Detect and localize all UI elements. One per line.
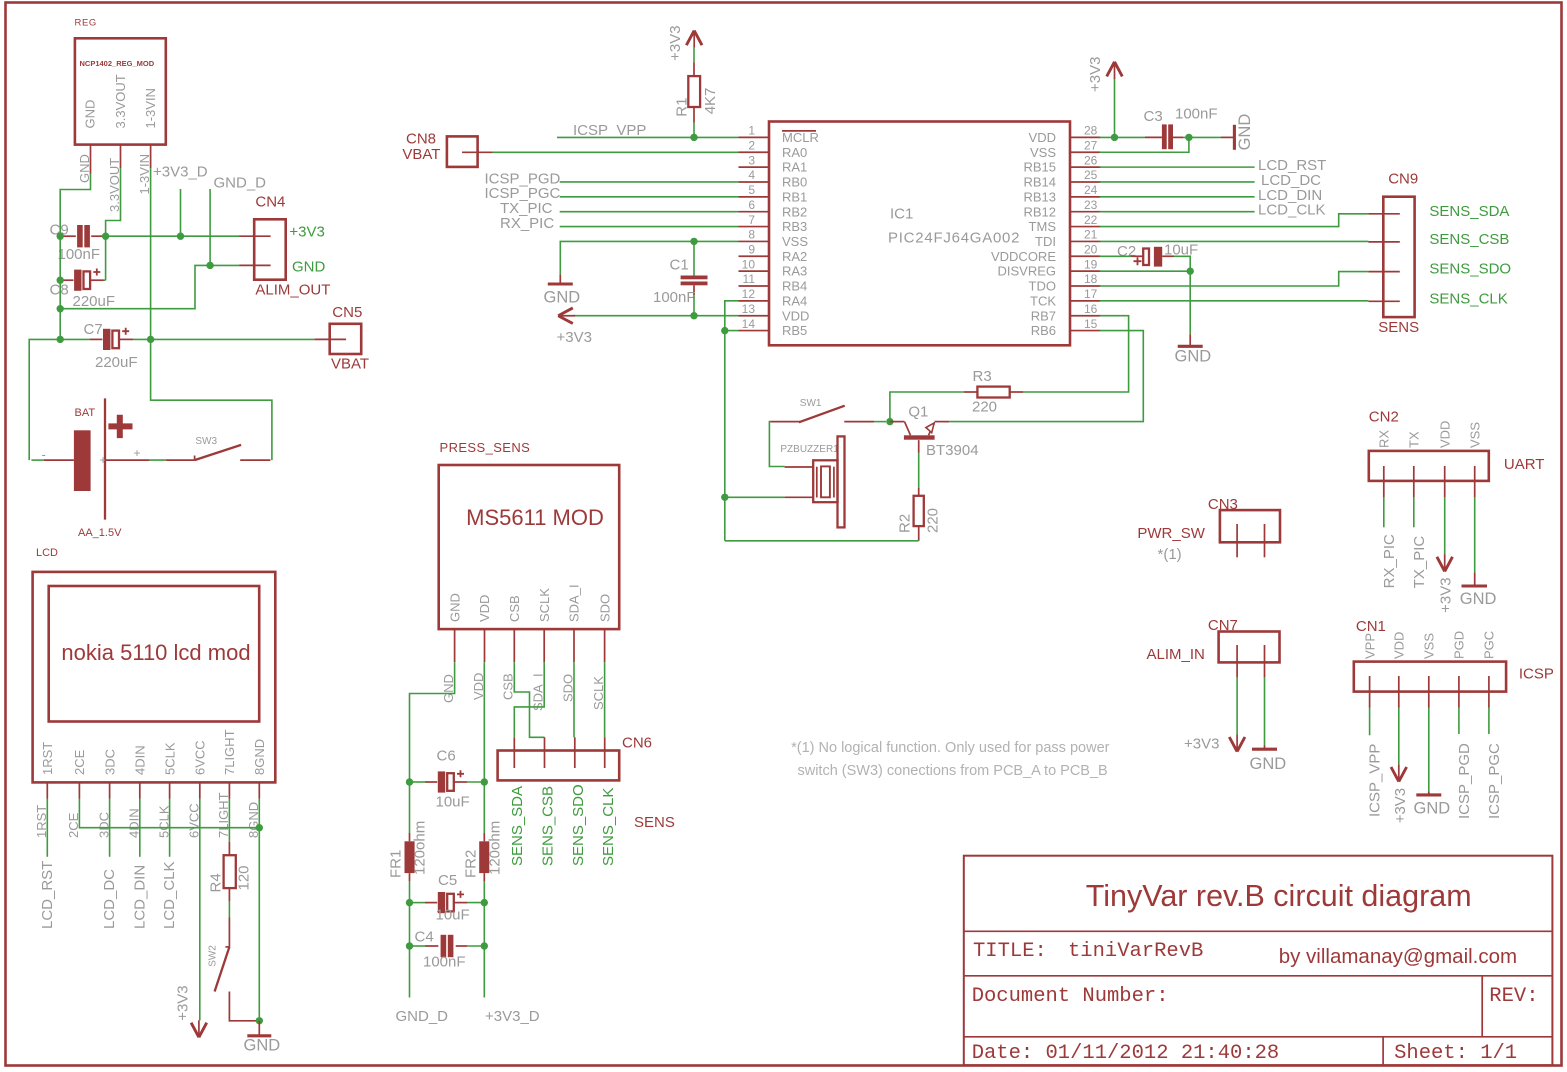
svg-text:7LIGHT: 7LIGHT	[222, 729, 237, 775]
svg-text:Sheet: 1/1: Sheet: 1/1	[1394, 1042, 1517, 1065]
CN2 pin TX stub	[1413, 466, 1415, 497]
LCD pin stub 5CLK	[169, 782, 171, 798]
IC1 pin 26 (RB15) stub	[1070, 166, 1101, 168]
REG pin stub 3.3VOUT	[120, 145, 122, 169]
connector CN8 body	[447, 136, 478, 167]
IC1 pin 23 (RB12) stub	[1070, 211, 1101, 213]
wire LCD 5CLK down	[169, 799, 171, 857]
IC1 pin 5 (RB1) stub	[739, 196, 770, 198]
battery plus lead	[105, 459, 150, 461]
svg-text:12: 12	[742, 287, 756, 301]
IC1 pin 8 (VSS) stub	[739, 240, 770, 242]
wire CN7 pin1 down to +3V3	[1236, 677, 1238, 734]
wire +3V3_D vertical	[180, 189, 182, 236]
title block row line 1	[964, 930, 1553, 932]
wire VDD (pin13) row	[573, 315, 738, 317]
svg-text:SDA_I: SDA_I	[531, 673, 546, 711]
wire RB14 (pin25) LCD_DC	[1100, 181, 1255, 183]
junction dot C7 right on 1-3VIN column	[147, 336, 154, 343]
wire C5 to C4 left	[409, 903, 411, 946]
IC1 pin 20 (VDDCORE) stub	[1070, 255, 1101, 257]
wire GND_D column FR1 top	[409, 782, 411, 833]
junction dot C6 right	[481, 778, 488, 785]
svg-text:GND: GND	[1175, 348, 1212, 366]
capacitor C5 (polarized) plates	[438, 892, 445, 913]
svg-text:13: 13	[742, 302, 756, 316]
wire CN2 TX down	[1413, 497, 1415, 527]
svg-text:VDD: VDD	[782, 308, 809, 323]
wire TMS (pin22) to CN9 pin1	[1100, 214, 1369, 227]
IC1 pin 7 (RB3) stub	[739, 226, 770, 228]
svg-text:+3V3_D: +3V3_D	[153, 164, 208, 181]
wire SW1 left down to buzzer	[769, 422, 784, 467]
svg-text:SENS_SDO: SENS_SDO	[570, 784, 587, 866]
svg-text:C6: C6	[437, 748, 456, 765]
battery BAT short plate	[74, 430, 91, 491]
battery BAT big plus sign	[108, 415, 132, 438]
svg-text:SW3: SW3	[195, 436, 217, 447]
IC1 pin 6 (RB2) stub	[739, 211, 770, 213]
resistor R4 body	[224, 855, 236, 888]
svg-text:16: 16	[1084, 302, 1098, 316]
svg-text:Document Number:: Document Number:	[972, 985, 1169, 1008]
wire RA4 (pin12) loop to RB5	[725, 301, 739, 331]
junction dot C3 right	[1185, 134, 1192, 141]
svg-text:SDO: SDO	[597, 594, 612, 622]
svg-text:switch (SW3) conections from P: switch (SW3) conections from PCB_A to PC…	[797, 763, 1107, 779]
svg-text:VDD: VDD	[1392, 632, 1407, 659]
switch SW1 lever	[799, 406, 845, 423]
FR2 leads	[483, 833, 485, 841]
svg-text:2: 2	[748, 138, 755, 152]
wire MS5611 VDD down	[483, 662, 485, 782]
wire VDD (pin28) to C3	[1100, 136, 1146, 138]
svg-text:RB13: RB13	[1023, 189, 1056, 204]
MS5611 pin stub SCLK	[543, 629, 545, 662]
junction dot C5 left	[406, 899, 413, 906]
wire RB15 (pin26) LCD_RST	[1100, 166, 1255, 168]
svg-text:220: 220	[972, 399, 997, 416]
svg-text:220: 220	[925, 508, 942, 533]
CN8 pin stub	[462, 151, 493, 153]
svg-text:25: 25	[1084, 168, 1098, 182]
svg-text:8: 8	[748, 228, 755, 242]
wire RB12 (pin23) LCD_CLK	[1100, 211, 1255, 213]
svg-text:RB4: RB4	[782, 279, 807, 294]
switch SW2 contact tick	[225, 946, 229, 948]
svg-text:100nF: 100nF	[58, 246, 101, 263]
CN3 pin 2 stub	[1264, 524, 1266, 557]
junction dot Q1 collector node	[886, 418, 893, 425]
svg-text:+3V3_D: +3V3_D	[485, 1008, 540, 1025]
svg-text:SW2: SW2	[208, 945, 219, 967]
IC1 pin 15 (RB6) stub	[1070, 330, 1101, 332]
svg-text:VDD: VDD	[1437, 421, 1452, 448]
svg-text:22: 22	[1084, 213, 1098, 227]
IC1 pin 17 (TCK) stub	[1070, 300, 1101, 302]
pressure sensor module MS5611 body	[439, 465, 620, 629]
CN1 pin VSS stub	[1428, 676, 1430, 708]
R2 bottom lead	[918, 526, 920, 541]
svg-text:11: 11	[743, 272, 756, 286]
CN4 pin 2 stub	[239, 264, 271, 266]
svg-text:GND_D: GND_D	[396, 1008, 449, 1025]
ground symbol at CN1	[1428, 791, 1430, 795]
wire VDDCORE (pin20) to C2	[1100, 255, 1132, 257]
CN2 pin RX stub	[1383, 466, 1385, 497]
junction dot buzzer-left rail	[721, 494, 728, 501]
IC1 PIC24FJ64GA002 body	[769, 122, 1070, 346]
svg-text:SCLK: SCLK	[591, 676, 606, 710]
wire VSS (pin8) to ground	[560, 241, 738, 274]
resistor R2 body	[914, 496, 924, 526]
C8 leads	[62, 279, 74, 281]
ground symbol at VSS	[559, 275, 561, 284]
svg-text:PWR_SW: PWR_SW	[1137, 525, 1205, 542]
LCD screen inner rect	[49, 586, 260, 722]
R1 top lead	[693, 62, 695, 76]
wire TCK (pin17) to CN9 pin4	[1100, 300, 1369, 302]
svg-text:PGC: PGC	[1482, 631, 1497, 659]
svg-text:VSS: VSS	[1030, 145, 1056, 160]
svg-text:24: 24	[1084, 183, 1098, 197]
wire battery minus to C7 row	[31, 459, 44, 461]
+3V3 down arrow at CN1	[1391, 767, 1407, 782]
svg-text:CSB: CSB	[501, 673, 516, 700]
wire SDA_I jog to CN6 pin1	[514, 662, 544, 737]
svg-text:VSS: VSS	[782, 234, 808, 249]
svg-text:220uF: 220uF	[95, 354, 138, 371]
LCD pin stub 8GND	[258, 782, 260, 798]
junction dot +3V3_D	[177, 233, 184, 240]
wire C5 row left	[410, 902, 426, 904]
wire RX_PIC to RB3	[560, 226, 739, 228]
svg-text:19: 19	[1084, 257, 1098, 271]
wire VBAT net down to SW3	[151, 339, 272, 460]
svg-text:ALIM_IN: ALIM_IN	[1147, 646, 1205, 663]
CN6 pin 2 stub	[544, 737, 546, 768]
svg-text:ALIM_OUT: ALIM_OUT	[255, 282, 330, 299]
connector CN9 body	[1383, 197, 1414, 317]
svg-text:6: 6	[748, 198, 755, 212]
switch SW3 left pin	[166, 459, 195, 461]
IC1 pin 27 (VSS) stub	[1070, 151, 1101, 153]
svg-text:SENS_CLK: SENS_CLK	[1429, 290, 1507, 307]
svg-text:27: 27	[1084, 138, 1098, 152]
connector CN3 body	[1220, 510, 1280, 542]
wire RB7 (pin16) to R3 right	[1023, 316, 1129, 392]
svg-text:TX: TX	[1407, 431, 1422, 448]
capacitor C7 (polarized) plates	[103, 329, 110, 350]
svg-text:SDO: SDO	[560, 674, 575, 702]
svg-text:10uF: 10uF	[436, 907, 470, 924]
wire REG GND to C9 left	[60, 174, 90, 236]
wire R3 left to collector junction	[890, 392, 964, 422]
+3V3 down arrow under 6VCC	[191, 1023, 207, 1038]
R2 top lead	[918, 488, 920, 496]
wire GND_D vertical	[209, 189, 211, 265]
wire GND_D tail	[409, 946, 411, 998]
title block row line 3	[964, 1036, 1553, 1038]
IC1 pin 18 (TDO) stub	[1070, 285, 1101, 287]
CN7 pin 2 stub	[1264, 645, 1266, 677]
wire REG 3.3VOUT to +3V3 rail	[106, 168, 121, 236]
wire CN1 PGC down	[1488, 708, 1490, 734]
LCD pin stub 4DIN	[139, 782, 141, 798]
ground symbol below LCD	[258, 1021, 260, 1036]
svg-text:RA1: RA1	[782, 160, 807, 175]
svg-text:DISVREG: DISVREG	[997, 264, 1056, 279]
wire LCD 4DIN down	[139, 799, 141, 857]
svg-text:GND: GND	[447, 593, 462, 622]
wire LCD 7LIGHT to R4	[228, 799, 230, 842]
svg-text:SDA_I: SDA_I	[567, 584, 582, 622]
wire CN1 VSS down to GND	[1428, 708, 1430, 791]
svg-text:MCLR: MCLR	[782, 130, 819, 145]
wire VDD column FR2 top	[483, 782, 485, 833]
wire C6 row right	[467, 781, 484, 783]
svg-text:4: 4	[748, 168, 755, 182]
junction dot C9 right	[102, 233, 109, 240]
wire SW1 to collector junction	[874, 421, 886, 423]
+3V3 supply arrow top right	[1107, 62, 1123, 77]
svg-text:RX_PIC: RX_PIC	[500, 215, 554, 232]
wire C4 row right	[467, 945, 484, 947]
svg-text:+3V3: +3V3	[557, 329, 592, 346]
IC1 pin 1 (MCLR) stub	[739, 136, 770, 138]
wire LCD 3DC down	[109, 799, 111, 857]
junction dot R1-MCLR	[690, 134, 697, 141]
buzzer bottom terminal	[785, 496, 814, 498]
wire C5 to C4 right	[483, 903, 485, 946]
wire REG 1-3VIN down (VBAT net)	[150, 168, 152, 339]
wire +3V3_D tail	[483, 946, 485, 998]
wire CN2 RX down	[1383, 497, 1385, 527]
IC1 pin 16 (RB7) stub	[1070, 315, 1101, 317]
wire CN2 VSS down to GND	[1474, 497, 1476, 573]
wire R4 to SW2	[228, 901, 230, 918]
svg-text:BT3904: BT3904	[926, 442, 979, 459]
ferrite FR2 body	[479, 841, 489, 873]
svg-text:MS5611 MOD: MS5611 MOD	[466, 505, 604, 530]
IC1 pin 12 (RA4) stub	[739, 300, 770, 302]
wire LCD 2CE to ground rail	[79, 799, 259, 828]
junction dot C9 left	[57, 233, 64, 240]
CN9 pin 3 stub	[1368, 271, 1399, 273]
CN6 pin 3 stub	[574, 737, 576, 768]
svg-text:ICSP_PGC: ICSP_PGC	[1486, 743, 1503, 819]
wire CN1 VDD down to +3V3	[1398, 708, 1400, 765]
svg-text:RX: RX	[1377, 430, 1392, 448]
C5 leads	[425, 902, 437, 904]
LCD pin stub 3DC	[109, 782, 111, 798]
junction dot C4 right	[481, 942, 488, 949]
svg-text:+3V3: +3V3	[667, 25, 684, 60]
title block outer frame	[964, 856, 1553, 1065]
switch SW2 lever	[215, 947, 230, 992]
svg-text:RB3: RB3	[782, 219, 807, 234]
wire GND_D net from CN4 pin2 down-left	[60, 265, 210, 308]
CN9 pin 2 stub	[1368, 241, 1399, 243]
wire RB5 (pin14) stub wire	[725, 330, 739, 332]
C3 left lead	[1145, 136, 1162, 138]
wire DISVREG (pin19) to junction	[1100, 270, 1191, 272]
svg-text:R3: R3	[973, 368, 992, 385]
svg-text:ICSP_VPP: ICSP_VPP	[573, 122, 646, 139]
ground symbol under C2	[1189, 334, 1191, 346]
resistor R3 body	[977, 387, 1009, 398]
svg-text:TDI: TDI	[1035, 234, 1056, 249]
MS5611 pin stub CSB	[513, 629, 515, 662]
IC1 pin 13 (VDD) stub	[739, 315, 770, 317]
svg-text:1: 1	[748, 124, 755, 138]
svg-text:1-3VIN: 1-3VIN	[143, 88, 158, 128]
svg-text:C4: C4	[415, 929, 434, 946]
wire C6 row left	[410, 781, 426, 783]
svg-text:120: 120	[236, 865, 253, 890]
wire buzzer bottom to left rail	[725, 496, 785, 498]
wire GND_D stub to CN4 pin2	[210, 264, 239, 266]
svg-text:RB14: RB14	[1023, 175, 1056, 190]
MS5611 pin stub SDA_I	[573, 629, 575, 662]
IC1 pin 9 (RA2) stub	[739, 255, 770, 257]
LCD pin stub 6VCC	[199, 782, 201, 798]
svg-text:C3: C3	[1144, 108, 1163, 125]
svg-text:VPP: VPP	[1362, 633, 1377, 659]
svg-text:CN9: CN9	[1388, 171, 1418, 188]
wire VBAT row left of C7	[29, 339, 90, 460]
svg-text:ICSP: ICSP	[1519, 666, 1554, 683]
junction dot VDD-C1	[690, 312, 697, 319]
svg-text:PZBUZZER1: PZBUZZER1	[780, 444, 839, 455]
svg-text:VSS: VSS	[1467, 422, 1482, 448]
svg-text:SENS: SENS	[1378, 319, 1419, 336]
svg-text:GND: GND	[1460, 590, 1497, 608]
MCLR overline	[782, 130, 816, 132]
capacitor C9 plates	[77, 225, 83, 247]
svg-text:3.3VOUT: 3.3VOUT	[113, 74, 128, 128]
wire C1 to VDD row	[693, 295, 695, 316]
svg-text:*(1): *(1)	[1158, 546, 1182, 563]
svg-text:TMS: TMS	[1029, 219, 1057, 234]
capacitor C4 plates	[441, 935, 447, 957]
svg-text:220uF: 220uF	[73, 293, 116, 310]
CN3 pin 1 stub	[1236, 524, 1238, 557]
svg-text:15: 15	[1084, 317, 1098, 331]
wire CN1 PGD down	[1458, 708, 1460, 734]
wire SDO straight down	[573, 662, 575, 737]
svg-text:CN5: CN5	[332, 304, 362, 321]
capacitor C2 (polarized) plates	[1143, 249, 1149, 266]
svg-text:3DC: 3DC	[102, 749, 117, 775]
svg-text:GND: GND	[292, 259, 326, 276]
svg-text:REG: REG	[75, 18, 97, 29]
svg-text:26: 26	[1084, 153, 1098, 167]
svg-text:5CLK: 5CLK	[162, 742, 177, 775]
svg-text:VBAT: VBAT	[402, 146, 440, 163]
svg-text:120ohm: 120ohm	[412, 821, 429, 875]
svg-text:RA0: RA0	[782, 145, 807, 160]
CN6 pin 4 stub	[604, 737, 606, 768]
svg-text:LCD_CLK: LCD_CLK	[1258, 202, 1326, 219]
C4 leads	[425, 945, 438, 947]
CN2 pin VSS stub	[1474, 466, 1476, 497]
svg-text:SENS_SDA: SENS_SDA	[1429, 203, 1509, 220]
C2 right lead	[1162, 255, 1174, 257]
svg-text:R4: R4	[207, 873, 224, 892]
svg-text:TDO: TDO	[1029, 279, 1056, 294]
svg-text:17: 17	[1084, 287, 1098, 301]
FR1 leads	[409, 833, 411, 841]
svg-text:FR1: FR1	[388, 850, 405, 878]
IC1 pin 11 (RB4) stub	[739, 285, 770, 287]
wire VSS (pin27) up to C3 junction	[1100, 137, 1189, 152]
svg-text:TinyVar rev.B circuit diagram: TinyVar rev.B circuit diagram	[1086, 879, 1472, 913]
wire C5 row right	[467, 902, 484, 904]
svg-text:VSS: VSS	[1422, 633, 1437, 659]
svg-text:by villamanay@gmail.com: by villamanay@gmail.com	[1279, 945, 1517, 968]
switch SW2 bottom pin	[229, 992, 257, 1021]
svg-text:1RST: 1RST	[40, 742, 55, 775]
svg-text:R2: R2	[897, 514, 914, 533]
IC1 pin 10 (RA3) stub	[739, 270, 770, 272]
wire C3 right to junction	[1183, 136, 1221, 138]
svg-text:NCP1402_REG_MOD: NCP1402_REG_MOD	[80, 59, 155, 68]
Q1 base lead down	[918, 440, 920, 452]
svg-text:LCD_DC: LCD_DC	[101, 869, 118, 929]
REG pin stub GND	[90, 145, 92, 174]
svg-text:ICSP_PGD: ICSP_PGD	[1456, 743, 1473, 819]
IC1 pin 14 (RB5) stub	[739, 330, 770, 332]
connector CN2 body	[1369, 451, 1489, 481]
wire CN1 VPP down	[1369, 708, 1371, 735]
svg-text:GND: GND	[1236, 114, 1254, 151]
ferrite FR1 body	[405, 841, 415, 873]
svg-text:+3V3: +3V3	[1184, 736, 1219, 753]
R4 top lead	[228, 842, 230, 855]
svg-text:4K7: 4K7	[702, 88, 719, 115]
junction dot C8 left	[57, 277, 64, 284]
svg-text:3: 3	[748, 153, 755, 167]
svg-text:GND: GND	[1414, 800, 1451, 818]
svg-text:+3V3: +3V3	[1087, 57, 1104, 92]
wire SCLK straight down	[604, 662, 606, 737]
svg-text:RA3: RA3	[782, 264, 807, 279]
wire ICSP_PGC to RB1	[560, 196, 739, 198]
wire TDO (pin18) to CN9 pin3	[1100, 272, 1369, 286]
svg-text:LCD_CLK: LCD_CLK	[161, 861, 178, 929]
svg-text:14: 14	[742, 317, 756, 331]
svg-text:RB0: RB0	[782, 175, 807, 190]
svg-text:CN1: CN1	[1356, 618, 1386, 635]
regulator module REG (NCP1402_REG_MOD) body	[75, 38, 166, 144]
svg-text:+3V3: +3V3	[289, 224, 324, 241]
svg-text:SCLK: SCLK	[537, 588, 552, 622]
svg-text:RB12: RB12	[1023, 204, 1056, 219]
svg-text:GND: GND	[1250, 755, 1287, 773]
CN5 pin stub	[315, 338, 347, 340]
junction dot GND column mid	[57, 305, 64, 312]
svg-text:RB1: RB1	[782, 189, 807, 204]
wire CSB jog to CN6 pin2	[514, 662, 544, 737]
connector CN7 body	[1219, 632, 1280, 663]
svg-text:SENS_CSB: SENS_CSB	[1429, 231, 1509, 248]
wire LCD 6VCC down to +3V3	[199, 799, 201, 1021]
junction dot +3V3 at pin28	[1111, 134, 1118, 141]
svg-text:VDDCORE: VDDCORE	[991, 249, 1056, 264]
buzzer top terminal	[785, 466, 814, 468]
svg-text:SENS_SDO: SENS_SDO	[1429, 261, 1511, 278]
